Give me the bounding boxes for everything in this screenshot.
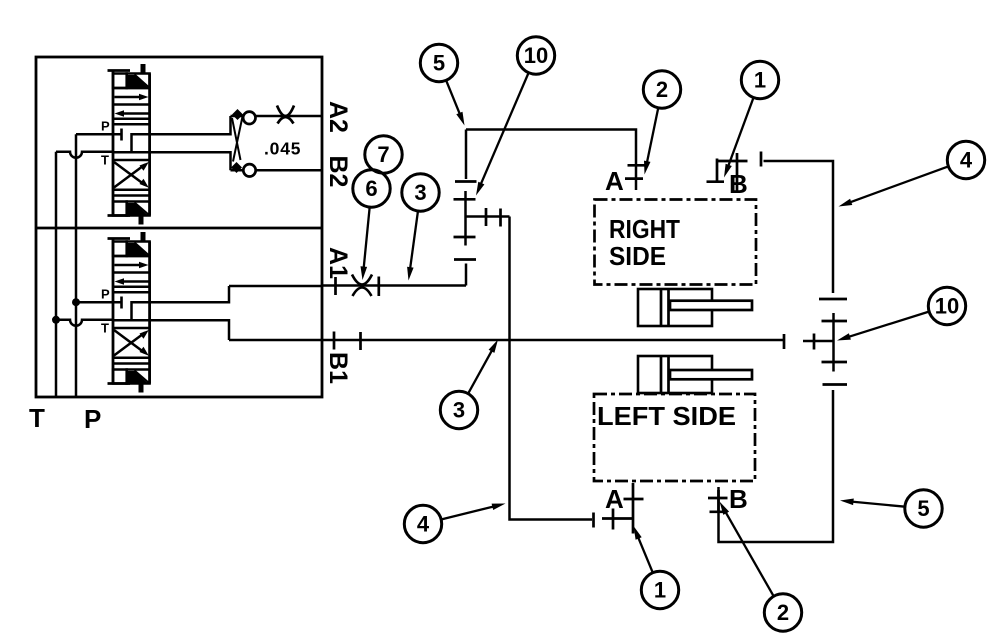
leader arrow c3up [410,211,418,272]
B1 right stub to vertical [803,340,833,343]
svg-text:1: 1 [754,68,766,93]
A1 hose end tick [377,277,380,297]
check valve ball upper [243,112,255,124]
leader arrow c5low [849,501,905,506]
port A fitting right [628,164,647,167]
B1 right stub tick [813,334,816,350]
svg-text:B: B [729,169,748,199]
svg-text:4: 4 [417,512,430,537]
svg-text:6: 6 [365,176,377,201]
B2 line [231,169,323,172]
callout circle 3 upper [402,174,439,211]
right jumper tick lower [822,361,848,364]
right lower tick [823,383,848,386]
svg-text:A2: A2 [324,101,352,133]
cylinder left piston [660,356,663,393]
port A fitting ticks left [624,498,644,501]
leader arrow c1top [727,97,754,169]
B1 line [229,339,322,342]
right wire down [764,161,834,293]
right wire end tick [819,298,847,301]
branch tick 2 [499,209,502,227]
svg-text:B1: B1 [324,352,352,384]
svg-text:P: P [84,404,101,434]
callout circle 10 top [517,37,554,74]
svg-text:2: 2 [656,77,668,102]
callout circle 6 [353,170,390,207]
svg-text:2: 2 [777,600,789,625]
leader arrow c2top [646,108,658,166]
riser jumper [464,191,467,246]
svg-text:5: 5 [433,51,445,76]
upper valve B line to check valves [150,152,231,170]
junction dot P lower [72,298,80,306]
port A line left [632,483,635,534]
svg-text:A: A [605,166,624,196]
svg-text:5: 5 [917,496,929,521]
branch to mid vertical [466,215,510,218]
port B fitting right [736,153,739,191]
B1 hose line [322,339,784,342]
svg-text:B: B [729,484,748,514]
B1 hose end tick [783,334,786,349]
svg-text:SIDE: SIDE [609,241,666,271]
A1 fitting tick [334,277,337,295]
callout circle 2 lower [764,594,801,631]
A1 hose line [322,284,466,287]
svg-text:.045: .045 [264,139,301,159]
pilot check crossing lines [232,118,241,160]
riser hose vertical upper [465,130,468,180]
RIGHT SIDE attachment box [595,200,757,285]
svg-text:4: 4 [960,148,973,173]
jumper tick upper [454,198,476,201]
cylinder left rod [670,370,752,379]
callout circle 3 lower [440,391,477,428]
callout circle 5 top [420,44,457,81]
P vertical line [75,134,78,397]
leader arrow c1low [637,534,653,573]
leader arrow c6 [363,207,369,271]
svg-text:3: 3 [453,398,465,423]
svg-text:A: A [605,484,624,514]
leader arrow c2low [724,509,774,596]
cylinder right piston [660,289,663,326]
branch tick 1 [485,208,488,226]
directional valve lower [56,232,150,393]
B1 hose start tick [359,332,362,350]
leader arrow c4right [847,166,949,203]
leader arrow c10top [480,73,529,188]
svg-text:1: 1 [654,578,666,603]
lower valve B line step down [150,320,229,340]
callout circle 4 lower [404,505,441,542]
cylinder left body [638,356,712,393]
svg-text:3: 3 [414,180,426,205]
callout circle 7 [365,136,402,173]
svg-text:T: T [29,403,45,433]
svg-text:10: 10 [524,43,548,68]
check valve ball lower [243,164,255,176]
svg-text:B2: B2 [324,156,352,188]
svg-text:10: 10 [935,294,959,319]
svg-text:A1: A1 [324,247,352,279]
cylinder right body [638,289,712,326]
callout circle 10 right [928,287,965,324]
T vertical line [55,152,58,397]
right jumper tick upper [822,320,848,323]
jumper tick lower [454,236,476,239]
A1 line [229,285,322,288]
A2 line [231,115,323,118]
check valve seat diamond upper [232,109,243,120]
leader arrow c10right [846,312,930,338]
orifice symbol on A2 [277,106,294,117]
hose B elbow tick [760,152,763,167]
riser lower tick [454,258,476,261]
check valve seat diamond lower [231,162,242,173]
A1 orifice symbol [352,275,372,285]
port B fitting left [717,490,720,513]
svg-text:7: 7 [377,142,389,167]
callout circle 5 lower [905,490,942,527]
callout circle 4 right [947,141,984,178]
directional valve upper [56,64,150,225]
manifold outer box [36,57,322,397]
callout circle 1 lower [641,571,678,608]
riser lower vertical [465,264,468,286]
upper valve A line to check valves [150,116,231,134]
mid vertical hose [510,217,593,520]
right jumper [832,313,835,372]
LEFT SIDE attachment box [594,394,755,481]
svg-text:RIGHT: RIGHT [609,214,680,244]
callout circle 2 top [643,71,680,108]
junction dot T lower [52,316,60,324]
B1 fitting tick [333,332,336,350]
feeder end tick [592,513,595,528]
manifold section divider [36,227,322,230]
callout circle 1 top [741,61,778,98]
cylinder right rod [670,301,752,310]
svg-text:LEFT SIDE: LEFT SIDE [597,401,736,431]
hose top run to cylinder A [466,130,636,191]
riser end tick [455,180,477,183]
leader arrow c3low [468,347,494,393]
leader arrow c4low [441,506,497,520]
lower valve A line step up [150,286,229,302]
right wire lower run [719,390,834,542]
leader arrow c5top [446,80,461,117]
